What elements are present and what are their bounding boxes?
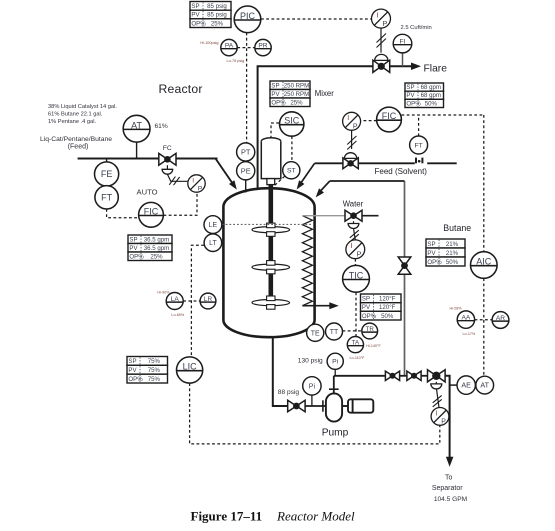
- svg-text:FT: FT: [414, 142, 422, 149]
- agitator shaft: [268, 185, 273, 307]
- svg-text:21%: 21%: [446, 241, 459, 248]
- svg-text:Hi-28%: Hi-28%: [450, 307, 463, 311]
- control valve to flare: [373, 60, 390, 72]
- svg-text:61%: 61%: [155, 123, 168, 130]
- wire: solvent line left of valve: [315, 162, 343, 164]
- svg-text:Reactor Model: Reactor Model: [276, 509, 355, 524]
- cooling coil: [302, 216, 312, 306]
- gauge Pi (suction): [303, 377, 321, 395]
- actuator dome discharge valve: [431, 384, 442, 389]
- arrow solvent into vessel: [297, 180, 305, 189]
- wire: dashed TIC down to TA: [355, 292, 357, 336]
- svg-text:Figure 17–11: Figure 17–11: [191, 509, 263, 524]
- transmitter LT: [204, 234, 222, 252]
- element AE: [457, 376, 475, 394]
- svg-text:1% Pentane .4 gal.: 1% Pentane .4 gal.: [48, 119, 96, 125]
- svg-text:I: I: [192, 178, 194, 185]
- svg-text:36.5 gpm: 36.5 gpm: [144, 245, 169, 252]
- svg-text:(Feed): (Feed): [68, 143, 89, 150]
- svg-text:Reactor: Reactor: [159, 82, 203, 96]
- alarm LA: [166, 293, 183, 310]
- svg-text:75%: 75%: [148, 376, 161, 383]
- svg-text:Pump: Pump: [322, 427, 349, 438]
- svg-text:FIC: FIC: [144, 207, 159, 217]
- svg-text:I: I: [376, 11, 378, 20]
- svg-text:Hi-140°F: Hi-140°F: [366, 344, 381, 348]
- svg-text:FE: FE: [101, 169, 113, 179]
- arrow coil outlet: [329, 302, 339, 309]
- pneumatic slashes solvent signal: [347, 136, 356, 150]
- controller SIC: [280, 112, 304, 136]
- svg-text:75%: 75%: [148, 367, 161, 374]
- wire: I/P to flare valve actuator signal: [380, 28, 382, 52]
- svg-text:2.5 Cuft/min: 2.5 Cuft/min: [401, 25, 432, 31]
- wire: flare pipe valve to arrow: [390, 65, 413, 67]
- control valve FC: [159, 153, 176, 165]
- wire: butane recycle top run: [330, 180, 405, 182]
- controller PIC: [234, 6, 261, 33]
- wire: solvent line right of valve: [358, 162, 415, 164]
- analyzer AT: [123, 115, 150, 142]
- svg-text:Mixer: Mixer: [315, 89, 334, 98]
- svg-text:SP: SP: [191, 3, 199, 10]
- svg-text:PV: PV: [427, 250, 436, 257]
- wire: water line right of valve: [362, 215, 379, 217]
- actuator dome flare valve: [375, 54, 388, 60]
- wire: FE stem: [106, 159, 108, 163]
- wire: dashed SIC to motor: [271, 123, 279, 137]
- svg-text:SP: SP: [427, 241, 435, 248]
- pump P1: [326, 393, 342, 421]
- control valve water: [345, 210, 362, 221]
- svg-text:OP%: OP%: [406, 100, 421, 107]
- svg-text:120°F: 120°F: [379, 304, 396, 311]
- svg-text:ST: ST: [287, 168, 296, 175]
- svg-text:AIC: AIC: [476, 257, 492, 267]
- pneumatic slashes water signal: [350, 230, 359, 242]
- svg-text:Pi: Pi: [332, 359, 339, 366]
- svg-text:LIC: LIC: [183, 362, 198, 372]
- svg-text:88 psig: 88 psig: [278, 389, 300, 396]
- svg-text:OP%: OP%: [128, 376, 143, 383]
- controller TIC: [343, 265, 370, 292]
- svg-text:LA: LA: [171, 296, 180, 303]
- wire: Pi discharge stem: [334, 370, 336, 376]
- wire: FI stem: [402, 53, 404, 66]
- actuator dome FC valve: [162, 169, 173, 174]
- recorder LR: [200, 293, 216, 309]
- wire: FC actuator to I/P signal: [167, 174, 187, 181]
- svg-text:25%: 25%: [290, 99, 303, 106]
- svg-text:68 gpm: 68 gpm: [421, 84, 441, 91]
- wire: dashed FIC to I/P (solvent): [361, 120, 377, 122]
- controller LIC: [177, 357, 203, 383]
- mixer motor M1: [261, 138, 281, 179]
- pump motor: [342, 399, 373, 413]
- controller AIC: [471, 252, 498, 279]
- svg-text:I: I: [436, 410, 438, 417]
- svg-text:OP%: OP%: [427, 259, 442, 266]
- element TE: [307, 324, 324, 341]
- element PE: [237, 162, 255, 180]
- svg-text:FI: FI: [399, 39, 405, 46]
- gauge Pi (discharge): [327, 353, 343, 369]
- transmitter ST: [283, 162, 300, 179]
- wire: suction to pump: [305, 405, 326, 407]
- wire: flare pipe from reactor top: [258, 66, 373, 191]
- transducer I/P (water): [346, 240, 365, 259]
- transmitter AT (analyzer): [476, 376, 494, 394]
- wire: dashed SIC to ST: [291, 136, 293, 161]
- svg-text:50%: 50%: [381, 313, 394, 320]
- svg-text:61% Butane 22.1 gal.: 61% Butane 22.1 gal.: [48, 111, 103, 117]
- wire: discharge line: [334, 375, 386, 377]
- table level SP/PV/OP: [127, 357, 168, 384]
- indicator FI: [393, 34, 412, 53]
- svg-text:TA: TA: [352, 340, 360, 347]
- hand valve butane riser: [398, 257, 411, 274]
- recorder TR: [362, 323, 378, 339]
- pneumatic slashes FC signal: [169, 177, 179, 186]
- transducer I/P (discharge): [431, 408, 449, 426]
- control valve solvent: [343, 158, 358, 169]
- wire: water valve stem: [353, 221, 355, 223]
- transmitter FT (feed): [95, 186, 118, 209]
- svg-text:P: P: [441, 418, 446, 425]
- wire: water line to coil: [302, 215, 345, 217]
- svg-text:Hi-100psig: Hi-100psig: [200, 41, 218, 45]
- svg-text:Lo-110°F: Lo-110°F: [350, 356, 366, 360]
- table pressure SP/PV/OP: [190, 2, 231, 28]
- wire: dashed PIC down to PT: [246, 33, 248, 143]
- svg-text:OP%: OP%: [362, 313, 377, 320]
- wire: discharge valve2 to valve3: [421, 375, 427, 377]
- svg-text:P: P: [357, 250, 362, 259]
- wire: pump discharge riser: [333, 376, 335, 394]
- control valve discharge: [428, 370, 446, 382]
- svg-text:Flare: Flare: [424, 63, 448, 74]
- svg-text:SP: SP: [406, 84, 414, 91]
- actuator dome solvent valve: [344, 153, 356, 159]
- impeller 3: [252, 296, 290, 309]
- table solvent flow SP/PV/OP: [405, 83, 444, 108]
- wire: dashed AIC vertical: [483, 115, 485, 376]
- flange tick suction: [322, 400, 324, 411]
- wire: solvent supply line: [427, 162, 457, 164]
- hand valve discharge 1: [385, 371, 399, 380]
- transducer I/P (solvent): [343, 112, 361, 130]
- controller FIC (solvent): [377, 107, 402, 132]
- svg-text:I: I: [347, 115, 349, 122]
- svg-text:P: P: [353, 123, 358, 130]
- svg-text:To: To: [445, 474, 453, 481]
- svg-text:PE: PE: [241, 167, 251, 176]
- svg-text:75%: 75%: [148, 358, 161, 365]
- svg-text:AR: AR: [496, 315, 505, 322]
- svg-text:PA: PA: [225, 43, 234, 50]
- svg-text:TE: TE: [311, 330, 320, 337]
- svg-text:SP: SP: [271, 82, 279, 89]
- svg-text:Butane: Butane: [443, 223, 471, 233]
- svg-text:250 RPM: 250 RPM: [284, 91, 309, 98]
- wire: dashed LIC to I/P (discharge): [190, 383, 440, 444]
- svg-text:SP: SP: [129, 236, 137, 243]
- svg-text:68 gpm: 68 gpm: [421, 92, 441, 99]
- wire: dashed FT(solvent) up: [418, 115, 420, 136]
- svg-text:SP: SP: [128, 358, 136, 365]
- wire: butane recycle riser: [404, 181, 406, 376]
- wire: dashed AA to AR: [475, 319, 493, 321]
- svg-text:85 psig: 85 psig: [207, 3, 227, 10]
- svg-text:PV: PV: [362, 304, 371, 311]
- svg-text:PR: PR: [258, 43, 267, 50]
- wire: coil outlet: [302, 305, 330, 307]
- transducer I/P (flare): [372, 9, 391, 28]
- svg-text:130 psig: 130 psig: [298, 358, 323, 365]
- svg-text:50%: 50%: [446, 259, 459, 266]
- recorder AR: [492, 312, 509, 329]
- svg-text:I: I: [351, 241, 353, 250]
- svg-text:120°F: 120°F: [379, 296, 396, 303]
- wire: dashed PA to PR: [237, 47, 254, 49]
- arrow feed into vessel: [229, 180, 237, 189]
- svg-text:LE: LE: [209, 222, 218, 229]
- svg-text:Feed (Solvent): Feed (Solvent): [375, 167, 428, 176]
- table butane SP/PV/OP: [426, 239, 465, 266]
- wire: I/P to solvent valve signal: [351, 130, 353, 149]
- pneumatic slashes discharge signal: [433, 395, 442, 406]
- svg-text:25%: 25%: [150, 253, 163, 260]
- svg-text:38% Liquid Catalyst 14 gal.: 38% Liquid Catalyst 14 gal.: [48, 104, 117, 110]
- transmitter TT: [326, 323, 343, 340]
- svg-text:PV: PV: [129, 245, 138, 252]
- svg-text:PV: PV: [406, 92, 415, 99]
- wire: vessel outlet: [273, 337, 288, 406]
- svg-text:PV: PV: [191, 12, 200, 19]
- svg-text:AT: AT: [131, 120, 142, 130]
- wire: dashed FIC to I/P (feed): [164, 192, 198, 215]
- svg-text:P: P: [198, 185, 203, 192]
- svg-text:AT: AT: [480, 381, 489, 390]
- wire: dashed I/P to TIC: [354, 259, 356, 266]
- svg-text:Water: Water: [343, 200, 364, 209]
- hand valve pump suction: [288, 400, 305, 411]
- svg-text:PT: PT: [241, 148, 251, 157]
- recorder PR: [255, 39, 271, 55]
- svg-text:104.5 GPM: 104.5 GPM: [434, 496, 467, 503]
- svg-text:SP: SP: [362, 296, 370, 303]
- wire: water actuator to I/P signal: [354, 228, 356, 240]
- orifice plate taps: [416, 158, 422, 164]
- svg-text:Separator: Separator: [432, 485, 463, 492]
- wire: FC valve stem: [166, 165, 168, 169]
- svg-text:50%: 50%: [425, 100, 438, 107]
- shaft coupling: [267, 179, 275, 185]
- pneumatic slashes flare signal: [377, 34, 387, 48]
- transmitter FT (solvent): [410, 136, 428, 154]
- alarm TA: [347, 337, 363, 353]
- svg-text:Liq-Cat/Pentane/Butane: Liq-Cat/Pentane/Butane: [40, 136, 112, 143]
- element FE: [95, 162, 119, 186]
- controller FIC (feed): [139, 202, 164, 227]
- wire: dashed ST to shaft: [275, 176, 285, 185]
- svg-text:TT: TT: [330, 329, 339, 336]
- svg-text:25%: 25%: [211, 20, 224, 27]
- svg-text:TR: TR: [366, 326, 375, 333]
- svg-text:LR: LR: [204, 296, 213, 303]
- svg-text:OP%: OP%: [129, 253, 144, 260]
- wire: discharge between valves: [400, 375, 407, 377]
- wire: discharge actuator to I/P: [437, 389, 440, 408]
- wire: discharge to separator pipe: [445, 376, 450, 458]
- hand valve discharge 2: [407, 371, 421, 380]
- transducer I/P (feed): [188, 175, 205, 193]
- svg-text:FT: FT: [101, 193, 112, 203]
- alarm PA: [221, 39, 237, 55]
- table temperature SP/PV/OP: [361, 294, 402, 320]
- wire: dashed TT to TR: [343, 330, 362, 332]
- svg-text:PV: PV: [128, 367, 137, 374]
- impeller 2: [252, 261, 290, 274]
- reactor vessel: [223, 188, 314, 337]
- element LE: [204, 216, 222, 234]
- wire: dashed LT to LIC: [191, 245, 204, 357]
- wire: Pi suction stem: [311, 395, 313, 406]
- wire: AT stem: [136, 142, 138, 158]
- svg-text:FIC: FIC: [382, 111, 397, 121]
- wire: dashed PIC to I/P (flare): [261, 18, 371, 20]
- svg-text:PV: PV: [271, 91, 280, 98]
- table feed flow SP/PV/OP: [128, 235, 172, 261]
- svg-text:AE: AE: [461, 381, 471, 390]
- svg-text:P: P: [382, 19, 387, 28]
- alarm AA: [457, 311, 474, 328]
- svg-text:21%: 21%: [446, 250, 459, 257]
- liquid level line: [222, 223, 312, 225]
- wire: butane diagonal into vessel: [319, 181, 330, 193]
- svg-text:TIC: TIC: [349, 271, 364, 281]
- actuator dome water valve: [348, 224, 359, 229]
- svg-text:Lo-65%: Lo-65%: [171, 313, 184, 317]
- svg-text:36.5 gpm: 36.5 gpm: [144, 236, 169, 243]
- svg-text:Lo-75 psig: Lo-75 psig: [227, 59, 245, 63]
- svg-text:SIC: SIC: [284, 116, 300, 126]
- wire: discharge valve stem: [435, 382, 437, 384]
- svg-text:250 RPM: 250 RPM: [284, 82, 309, 89]
- arrow butane into vessel: [316, 188, 324, 197]
- wire: dashed LA to LR: [183, 300, 200, 302]
- wire: dashed FT to FIC: [107, 209, 139, 218]
- impeller 1: [252, 223, 290, 236]
- svg-text:OP%: OP%: [271, 99, 286, 106]
- wire: feed line into vessel diagonal: [216, 159, 234, 185]
- svg-text:Hi-90%: Hi-90%: [157, 290, 170, 294]
- transmitter PT: [237, 143, 255, 161]
- svg-text:Lo-17%: Lo-17%: [463, 332, 476, 336]
- wire: solvent diagonal into vessel: [300, 163, 315, 184]
- svg-text:AUTO: AUTO: [137, 187, 158, 196]
- svg-text:AA: AA: [462, 315, 471, 322]
- wire: dashed FIC(solvent) to AIC line: [402, 114, 484, 116]
- flange tick discharge: [329, 388, 339, 390]
- svg-text:FC: FC: [163, 145, 172, 152]
- svg-text:85 psig: 85 psig: [207, 12, 227, 19]
- svg-text:LT: LT: [209, 240, 217, 247]
- arrow to flare: [411, 63, 421, 71]
- wire: feed line: [78, 158, 218, 160]
- svg-text:OP%: OP%: [191, 20, 206, 27]
- arrow to separator: [446, 457, 454, 467]
- svg-text:Pi: Pi: [309, 383, 316, 390]
- wire: PE stem to vessel: [245, 180, 247, 193]
- svg-text:PIC: PIC: [240, 11, 256, 21]
- table mixer SP/PV/OP: [270, 81, 310, 107]
- wire: AE stub: [450, 384, 457, 386]
